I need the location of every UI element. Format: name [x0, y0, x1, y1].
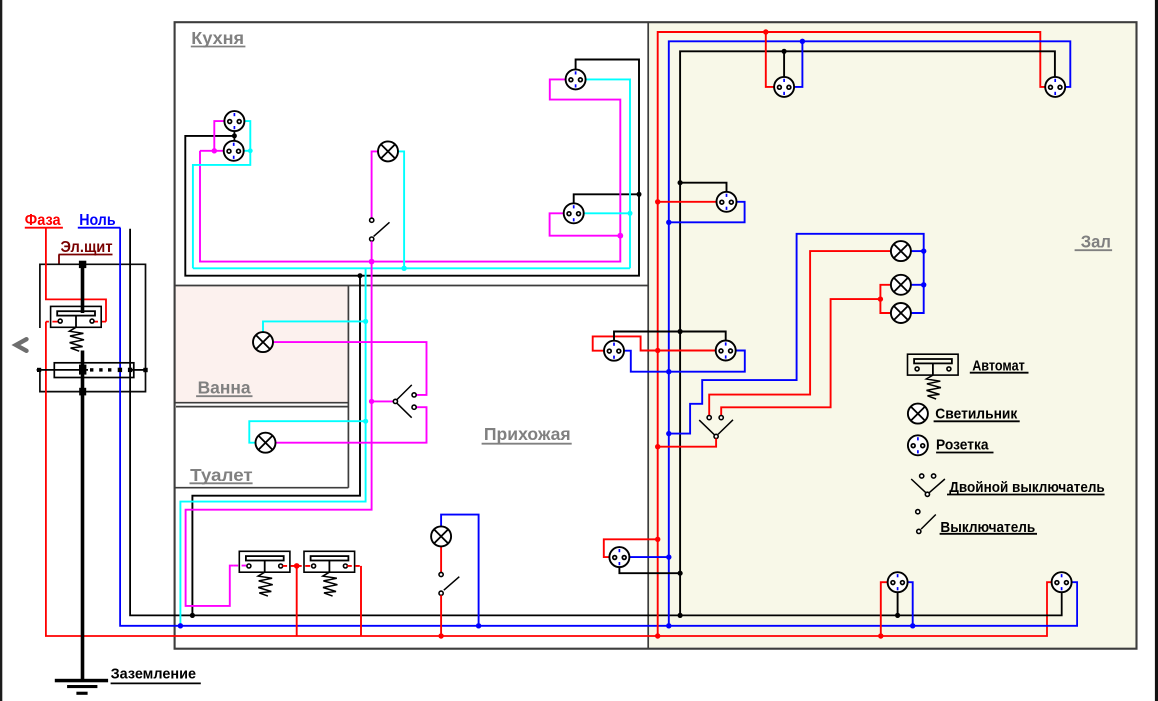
wire magenta down kitchen left and along bottom (phase branch bus): [200, 79, 620, 261]
wire black to socket Z3: [680, 183, 726, 192]
wire black to socket H2: [619, 567, 680, 573]
socket Z3 left wall: [717, 192, 737, 212]
wire red to sockets H1 and Z4: [593, 336, 716, 350]
lamp L2: [891, 275, 911, 295]
junction square riser at panel bottom: [79, 388, 86, 396]
wall: kitchen bottom: [175, 285, 649, 287]
wire cyan bath lamp: [263, 321, 366, 332]
node cyan at KB stub: [628, 211, 633, 216]
node blue hallway lamp on bus: [476, 623, 481, 628]
legend breaker symbol: [908, 354, 959, 399]
junction square riser top: [79, 261, 86, 268]
wire red A2 output down to phase bus: [360, 566, 362, 636]
svg-text:Двойной выключатель: Двойной выключатель: [949, 479, 1104, 496]
node magenta at K2: [212, 148, 217, 153]
breaker symbol in panel: [51, 306, 102, 351]
node magenta on trunk: [369, 399, 374, 404]
wire red dashed into breaker terminals: [94, 321, 106, 323]
wall: partition kitchen/hall vs living room: [647, 22, 649, 649]
socket H1 hallway upper: [604, 341, 624, 361]
wire black kitchen ring: from K1/K2 down, along kitchen bottom, up right wall, to socket KT top: [185, 60, 639, 276]
switch S3 hallway: [439, 572, 443, 576]
wire red main riser and top run to socket Z2: [658, 32, 1046, 636]
left page border bar: [0, 0, 2, 701]
svg-text:Туалет: Туалет: [190, 465, 253, 485]
node red S3 on phase bus: [438, 633, 443, 638]
node black kitchen bottom branch to hallway: [358, 273, 363, 278]
node black on wall run: [637, 192, 642, 197]
wire black bridge between sockets K1,K2: [233, 131, 235, 141]
svg-text:Светильник: Светильник: [935, 405, 1017, 422]
wire red to socket H2: [604, 539, 658, 557]
wall: bath/toilet right: [347, 286, 349, 488]
legend switch symbol: [916, 510, 920, 514]
panel box Эл.щит: [40, 264, 146, 391]
lamp L3: [891, 303, 911, 323]
wall: bath bottom lower line: [176, 406, 348, 408]
main earth riser thick: [81, 264, 85, 313]
wire magenta kitchen lamp feed: [372, 151, 378, 218]
wire red lamps L2,L3 from switch S4 right: [721, 299, 880, 415]
bus bar line with dashes: [37, 369, 88, 371]
bathroom (Ванна) floor fill: [175, 286, 347, 402]
right page border bar: [1155, 0, 1158, 701]
wire black to sockets H1 and Z4: [614, 332, 726, 341]
legend lamp symbol: [908, 404, 928, 424]
lamp toilet: [256, 433, 276, 453]
wire red hallway lamp to switch S3: [440, 547, 442, 573]
wire magenta feed to switch S2 common: [372, 400, 394, 402]
socket Z1 top middle: [774, 77, 794, 97]
wire black down through bath/toilet wall to bottom-left: [192, 276, 360, 616]
svg-text:Зал: Зал: [1081, 231, 1111, 251]
wire cyan stub socket KB: [584, 212, 630, 214]
wire magenta bath lamp to switch S2 upper: [273, 342, 426, 395]
node magenta on vertical: [617, 233, 623, 239]
node red riser on phase bus: [655, 633, 660, 638]
wire red to socket Z3: [658, 201, 717, 203]
wall: bath bottom upper line: [175, 402, 349, 404]
socket K1: [224, 111, 244, 131]
wire neutral blue: drop from label to bottom bus, across, up into socket Z6: [120, 228, 1077, 626]
wire red dashed junction to A2 left terminal: [297, 565, 312, 567]
living room (Зал) floor fill: [649, 23, 1136, 649]
node black on ground bottom bus: [190, 613, 195, 618]
ground symbol bars: [55, 679, 108, 683]
lamp hallway: [431, 526, 451, 546]
socket Z6 bottom right: [1052, 572, 1072, 592]
wire from Эл.щит label to panel box: [58, 255, 60, 265]
node cyan at K2: [248, 148, 253, 153]
svg-text:Кухня: Кухня: [191, 28, 244, 48]
wall: apartment outline: [175, 22, 1137, 649]
svg-text:Ноль: Ноль: [79, 212, 116, 229]
junction square riser at bus bar: [79, 365, 86, 375]
wire blue to socket Z3: [669, 202, 745, 223]
lamp kitchen: [378, 141, 398, 161]
node black riser on ground bus: [678, 613, 683, 618]
gray chevron <: [16, 339, 27, 351]
wire magenta toilet lamp to switch S2 lower: [276, 407, 427, 443]
wire black drop to socket Z1: [783, 51, 785, 76]
legend double switch symbol: [911, 479, 926, 493]
node blue riser on neutral bus: [666, 623, 671, 628]
legend socket symbol: [908, 435, 928, 455]
svg-text:Ванна: Ванна: [198, 378, 251, 398]
wire red dashed A2 right terminal out: [347, 565, 361, 567]
neutral bus bar box: [54, 363, 134, 378]
wire ground black thin: down beside panel to bottom bus, across, up into socket Z6: [130, 229, 1062, 616]
socket H2 hallway lower: [609, 547, 629, 567]
wire blue stubs lamps L1 L2: [911, 250, 924, 252]
wire blue main riser and top run to socket Z2: [669, 41, 1071, 626]
wire blue neutral staircase to ceiling lamps: [669, 234, 924, 434]
wire blue to socket Z5: [908, 582, 913, 626]
wire phase red: drop from label, jog to breaker right terminal: [46, 228, 106, 322]
wire magenta socket KB left pin loop: [550, 213, 621, 235]
wire red dashed A1 right terminal to junction: [283, 565, 297, 567]
wire phase red down left side to bottom bus, across, up into socket Z6: [46, 322, 1051, 636]
wire cyan sockets K1,K2 right pins and down to bus: [193, 121, 250, 268]
wire blue drop to socket Z1: [794, 41, 802, 87]
node blue where cyan meets neutral bus: [178, 623, 183, 628]
wire blue to socket H2: [630, 556, 669, 558]
breaker A1 hallway: [239, 551, 290, 596]
wire magenta dashed into breaker A1: [234, 565, 247, 567]
wire cyan kitchen bottom bus: [193, 267, 630, 269]
wire cyan trunk down to bottom-left joining neutral bus: [180, 268, 365, 626]
wire black main riser and top run to socket Z2: [680, 51, 1055, 615]
wire red lamp L1 from switch S4 left: [709, 251, 891, 415]
svg-text:Фаза: Фаза: [25, 212, 61, 229]
lamp L1: [891, 241, 911, 261]
wire cyan kitchen lamp to bus: [398, 151, 404, 268]
wire magenta from switch S1 down across bus to bottom-left and to breaker A1: [186, 241, 372, 606]
double switch S2 bath/toilet: [397, 385, 412, 400]
node red between breakers: [294, 563, 300, 569]
lamp bath: [253, 332, 273, 352]
wire blue hallway lamp loop to neutral bus: [441, 515, 479, 626]
socket KT kitchen top right: [566, 69, 586, 89]
node cyan bath lamp tap: [363, 319, 368, 324]
node cyan lamp drop on bus: [401, 266, 406, 271]
wire blue to sockets H1 and Z4: [624, 351, 744, 372]
wire magenta sockets K1,K2 left pins: [214, 121, 224, 151]
svg-text:Заземление: Заземление: [111, 666, 196, 683]
node cyan toilet lamp tap: [363, 419, 368, 424]
socket Z2 top right: [1045, 77, 1065, 97]
wire black to socket Z5: [897, 592, 899, 615]
wire cyan right vertical to socket KT: [586, 79, 630, 268]
wire black branch socket KB to right wall run: [574, 194, 639, 203]
socket Z4 left wall lower: [716, 341, 736, 361]
wire red to socket Z5: [881, 582, 888, 636]
node magenta at bus crossing: [369, 259, 375, 265]
socket K2: [224, 141, 244, 161]
breaker A2 hallway: [304, 551, 355, 596]
wire red drop to socket Z1: [766, 32, 775, 87]
wire red switch S4 common to riser: [658, 439, 716, 447]
wall: toilet bottom: [175, 487, 349, 489]
switch S1 kitchen: [370, 218, 374, 222]
double switch S4 living room: [699, 420, 714, 435]
svg-text:Прихожая: Прихожая: [484, 424, 571, 444]
wire red junction down to phase bus: [296, 566, 298, 636]
socket KB kitchen bottom right: [564, 203, 584, 223]
wire red switch S3 to phase bus: [440, 595, 442, 636]
node black at K1/K2 bridge: [232, 133, 237, 138]
socket Z5 bottom left: [888, 572, 908, 592]
wire cyan toilet lamp: [249, 421, 365, 443]
svg-text:Эл.щит: Эл.щит: [61, 239, 113, 256]
svg-text:Розетка: Розетка: [936, 437, 989, 454]
